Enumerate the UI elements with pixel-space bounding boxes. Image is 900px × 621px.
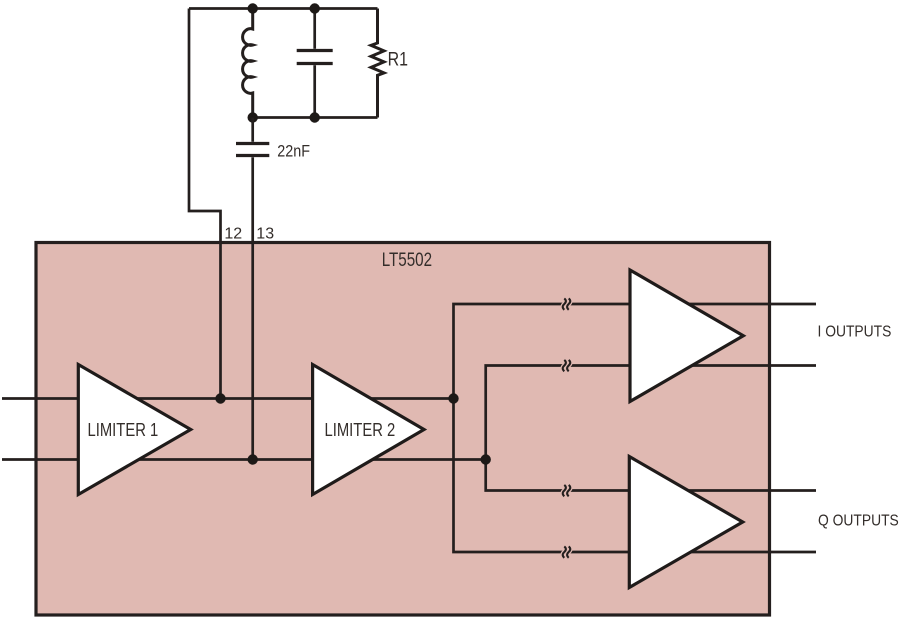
Q output amplifier [629, 457, 742, 588]
svg-text:13: 13 [256, 225, 274, 242]
wire left branch from top rail to pin 12 [189, 9, 221, 399]
limiter 1 amplifier [78, 365, 190, 495]
wire limiter2 output upper [355, 397, 454, 400]
wire pin 13 drop [251, 157, 254, 459]
node junction lower after limiter2 [481, 454, 491, 464]
node bottom rail at capacitor [310, 112, 320, 122]
svg-text:R1: R1 [388, 48, 408, 70]
wire lower input [2, 458, 100, 461]
wire I output lower [670, 364, 816, 367]
svg-text:LT5502: LT5502 [382, 248, 432, 270]
limiter 2 amplifier [313, 365, 424, 495]
wire top rail [189, 7, 378, 10]
wire limiter1 to limiter2 lower [120, 458, 313, 461]
node junction pin12 on upper wire [215, 393, 225, 403]
coupling break squiggle on I amp lower input [563, 360, 571, 371]
node top rail at inductor [248, 3, 258, 13]
inductor L1 [243, 9, 253, 118]
capacitor C2 22nF [236, 118, 269, 156]
wire I output upper [670, 303, 816, 306]
resistor R1 [371, 9, 384, 118]
svg-text:I OUTPUTS: I OUTPUTS [818, 323, 892, 341]
node bottom rail at inductor [248, 112, 258, 122]
wire inner riser pair to I amp bottom and Q amp top [486, 366, 640, 491]
coupling break squiggle on I amp upper input [563, 298, 571, 309]
wire bottom rail [253, 116, 378, 119]
capacitor C1 tank [297, 9, 333, 118]
wire upper input [2, 397, 100, 400]
svg-text:Q OUTPUTS: Q OUTPUTS [818, 512, 899, 530]
wire limiter1 to limiter2 upper [120, 397, 313, 400]
wire Q output upper [670, 489, 816, 492]
wire limiter2 output lower [355, 458, 486, 461]
coupling break squiggle on Q amp upper input [563, 485, 571, 496]
wire outer riser pair to I amp top and Q amp bottom [454, 304, 641, 552]
coupling break squiggle on Q amp lower input [563, 546, 571, 557]
node junction upper after limiter2 [448, 393, 458, 403]
svg-text:LIMITER 2: LIMITER 2 [325, 419, 396, 440]
svg-text:LIMITER 1: LIMITER 1 [88, 419, 159, 440]
wire Q output lower [670, 551, 816, 554]
node top rail at capacitor [310, 3, 320, 13]
node junction pin13 on lower wire [248, 454, 258, 464]
svg-text:12: 12 [224, 225, 242, 242]
svg-text:22nF: 22nF [277, 143, 310, 161]
IC body LT5502 [36, 243, 770, 616]
I output amplifier [630, 270, 743, 402]
